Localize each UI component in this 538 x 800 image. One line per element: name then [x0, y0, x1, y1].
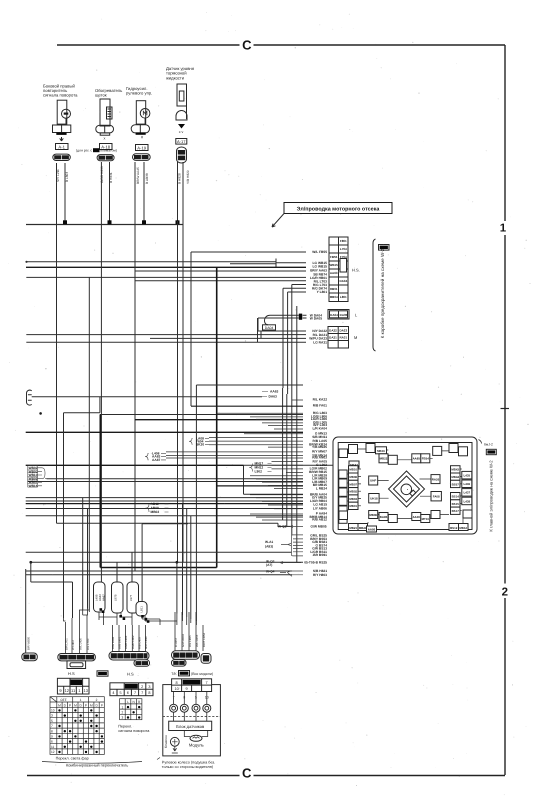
svg-text:Клаксон: Клаксон [164, 735, 168, 748]
svg-text:MT10: MT10 [422, 517, 430, 521]
svg-text:AA30: AA30 [413, 515, 421, 519]
svg-text:12: 12 [51, 750, 55, 754]
svg-text:R/B L409: R/B L409 [138, 637, 142, 649]
svg-text:F801: F801 [340, 239, 347, 243]
svg-text:B/R WB05: B/R WB05 [27, 636, 31, 650]
svg-text:MB21: MB21 [349, 526, 357, 530]
svg-text:W/B L401: W/B L401 [118, 636, 122, 649]
svg-text:L977: L977 [129, 594, 133, 601]
svg-text:FA08: FA08 [433, 495, 440, 499]
svg-text:Комбинированный переключатель: Комбинированный переключатель [66, 763, 128, 768]
svg-text:MB02: MB02 [349, 490, 357, 494]
svg-text:MB12: MB12 [459, 526, 467, 530]
svg-text:H.S: H.S [127, 672, 134, 677]
svg-text:B FB57: B FB57 [174, 637, 178, 647]
svg-text:A-1: A-1 [58, 144, 65, 149]
svg-text:R/L FB55: R/L FB55 [188, 635, 192, 647]
svg-text:LG/R L402: LG/R L402 [131, 635, 135, 649]
svg-text:L435: L435 [464, 474, 471, 478]
svg-text:RA26: RA26 [432, 477, 440, 481]
svg-text:9: 9 [186, 687, 188, 691]
svg-text:AA63: AA63 [330, 271, 338, 275]
svg-text:(А7): (А7) [266, 563, 272, 567]
svg-text:F704: F704 [340, 255, 347, 259]
svg-text:1: 1 [80, 698, 82, 702]
svg-text:HB01: HB01 [330, 287, 338, 291]
svg-text:7: 7 [51, 724, 53, 728]
svg-text:M: M [90, 703, 93, 707]
svg-text:M: M [74, 703, 77, 707]
svg-text:05-Т05-В RS25: 05-Т05-В RS25 [304, 561, 327, 565]
svg-text:AA87: AA87 [101, 594, 105, 601]
svg-text:G/OR H833: G/OR H833 [100, 166, 104, 183]
svg-text:SK20: SK20 [196, 442, 204, 446]
svg-text:FB55: FB55 [330, 255, 338, 259]
svg-text:LT02: LT02 [87, 657, 93, 660]
svg-text:AA87: AA87 [152, 458, 161, 462]
svg-text:6: 6 [51, 740, 53, 744]
svg-text:W/L FB55: W/L FB55 [195, 634, 199, 647]
svg-text:BR BS91: BR BS91 [313, 553, 327, 557]
svg-text:B/R L701: B/R L701 [64, 638, 68, 650]
svg-text:LA03: LA03 [69, 657, 76, 660]
svg-text:BS17: BS17 [452, 509, 460, 513]
svg-text:MB24: MB24 [359, 526, 367, 530]
svg-text:Рулевое колесо (подушка без.: Рулевое колесо (подушка без. [162, 760, 215, 764]
svg-text:FB54: FB54 [422, 457, 429, 461]
svg-text:R/B AB12: R/B AB12 [312, 518, 327, 522]
svg-text:2: 2 [122, 711, 124, 715]
svg-text:OFF: OFF [60, 698, 66, 702]
svg-text:8: 8 [148, 691, 150, 695]
svg-text:L437: L437 [464, 491, 471, 495]
svg-text:H.S: H.S [68, 671, 75, 676]
svg-text:L438: L438 [464, 499, 471, 503]
svg-text:B L803: B L803 [65, 172, 69, 182]
svg-text:AA85: AA85 [413, 457, 421, 461]
svg-text:6: 6 [127, 691, 129, 695]
svg-text:11: 11 [51, 745, 55, 749]
svg-text:R/L KA22: R/L KA22 [313, 398, 328, 402]
svg-text:8: 8 [176, 681, 178, 685]
svg-text:L902: L902 [255, 470, 263, 474]
svg-text:1: 1 [500, 223, 507, 235]
svg-text:B H828: B H828 [178, 173, 182, 184]
svg-text:MB04: MB04 [330, 295, 338, 299]
svg-text:8: 8 [51, 729, 53, 733]
svg-text:C: C [242, 766, 252, 781]
svg-text:(А83): (А83) [265, 544, 273, 548]
svg-text:LB11: LB11 [140, 606, 144, 613]
svg-text:W L403: W L403 [71, 640, 75, 650]
svg-text:P: P [101, 703, 103, 707]
svg-text:MB07: MB07 [349, 482, 357, 486]
svg-text:MB03: MB03 [349, 497, 357, 501]
svg-text:LG/B L406: LG/B L406 [124, 635, 128, 649]
svg-text:R/G L404: R/G L404 [111, 637, 115, 649]
svg-text:MB44: MB44 [451, 475, 459, 479]
svg-text:BS57: BS57 [452, 482, 460, 486]
svg-text:W/L FB55: W/L FB55 [312, 250, 327, 254]
svg-text:A-17: A-17 [177, 139, 186, 144]
svg-text:Модуль: Модуль [189, 743, 205, 748]
svg-text:L404: L404 [124, 655, 130, 658]
svg-text:L RB24: L RB24 [316, 486, 327, 490]
svg-text:рулевого упр.: рулевого упр. [126, 91, 152, 96]
svg-text:Y/B MN25: Y/B MN25 [312, 445, 327, 449]
svg-text:7: 7 [134, 691, 136, 695]
svg-text:DA04: DA04 [265, 326, 274, 330]
svg-text:MB47: MB47 [350, 463, 358, 467]
svg-text:P: P [85, 703, 87, 707]
svg-text:BS15: BS15 [452, 502, 460, 506]
svg-text:Y/B H829: Y/B H829 [186, 170, 190, 184]
svg-text:AA63: AA63 [270, 390, 279, 394]
svg-text:AA86: AA86 [368, 528, 376, 532]
svg-text:L436: L436 [464, 482, 471, 486]
svg-text:щеток: щеток [95, 93, 107, 98]
svg-text:L/R KA04: L/R KA04 [313, 427, 328, 431]
svg-text:H.S.: H.S. [352, 268, 360, 273]
svg-text:9: 9 [51, 735, 53, 739]
svg-text:W-Q4: W-Q4 [266, 570, 275, 574]
svg-text:бмJ-2: бмJ-2 [484, 442, 493, 446]
svg-text:L406: L406 [131, 655, 137, 658]
svg-text:x: x [104, 137, 106, 141]
svg-text:P: P [69, 703, 71, 707]
svg-text:L97B: L97B [114, 594, 118, 601]
svg-text:Т/К: Т/К [171, 672, 177, 676]
svg-text:2: 2 [96, 698, 98, 702]
svg-text:сигнала поворота: сигнала поворота [118, 729, 150, 733]
svg-text:сигнала поворота: сигнала поворота [43, 93, 78, 98]
svg-text:M: M [58, 703, 61, 707]
svg-text:M: M [354, 335, 357, 340]
svg-text:2: 2 [141, 685, 143, 689]
svg-text:MB10: MB10 [349, 468, 357, 472]
svg-text:3: 3 [148, 685, 150, 689]
svg-text:3: 3 [122, 716, 124, 720]
svg-text:12: 12 [65, 688, 70, 693]
svg-text:BA85: BA85 [380, 515, 388, 519]
svg-text:BS14: BS14 [452, 495, 460, 499]
svg-text:DA22: DA22 [329, 329, 337, 333]
svg-text:B AB38: B AB38 [145, 173, 149, 184]
svg-text:MB02: MB02 [151, 510, 160, 514]
svg-text:x v: x v [179, 130, 184, 134]
svg-text:К главной эл/проводке на схеме: К главной эл/проводке на схеме W-2 [489, 460, 494, 532]
svg-text:Перекл. света фар: Перекл. света фар [56, 756, 89, 760]
svg-text:WB15: WB15 [330, 263, 339, 267]
svg-text:G/W L996: G/W L996 [144, 636, 148, 649]
svg-text:W-Q2: W-Q2 [278, 525, 287, 529]
svg-text:L: L [355, 313, 358, 318]
svg-text:DA04: DA04 [330, 313, 338, 317]
svg-text:4: 4 [112, 691, 114, 695]
svg-text:Y L801: Y L801 [317, 290, 328, 294]
svg-text:LA05: LA05 [78, 657, 85, 660]
svg-text:DA21: DA21 [329, 336, 337, 340]
svg-text:L/Y AB06: L/Y AB06 [313, 506, 327, 510]
svg-text:5: 5 [51, 719, 53, 723]
svg-text:DA63: DA63 [269, 395, 278, 399]
svg-text:7: 7 [141, 691, 143, 695]
svg-text:LA01: LA01 [117, 655, 123, 658]
svg-text:Блок датчиков: Блок датчиков [176, 724, 205, 729]
svg-text:G/W MB05: G/W MB05 [311, 525, 327, 529]
svg-text:A-19: A-19 [137, 145, 147, 150]
svg-text:1: 1 [122, 705, 124, 709]
svg-text:L: L [127, 700, 129, 704]
svg-text:MB16: MB16 [377, 449, 385, 453]
svg-text:жидкости: жидкости [166, 75, 185, 80]
svg-text:LG RA31: LG RA31 [313, 340, 327, 344]
svg-text:Эл/проводка моторного отсека: Эл/проводка моторного отсека [297, 207, 381, 213]
svg-text:климатом): климатом) [101, 149, 117, 153]
svg-text:FB54: FB54 [186, 655, 193, 658]
svg-text:10: 10 [51, 709, 55, 713]
svg-text:R/B FA01: R/B FA01 [313, 404, 327, 408]
svg-text:К коробке предохранителей на с: К коробке предохранителей на схеме W-2 [380, 248, 385, 338]
svg-text:W/L L405: W/L L405 [78, 638, 82, 650]
svg-text:Перекл.: Перекл. [118, 724, 132, 728]
svg-text:RA31: RA31 [339, 336, 347, 340]
svg-text:MB43: MB43 [451, 468, 459, 472]
svg-text:L801: L801 [340, 295, 347, 299]
svg-text:BR/Y FB54: BR/Y FB54 [202, 633, 206, 647]
svg-text:BS12: BS12 [450, 526, 458, 530]
svg-text:L704: L704 [340, 247, 347, 251]
svg-text:UH18: UH18 [370, 497, 378, 501]
svg-text:10: 10 [174, 687, 178, 691]
svg-text:DA23: DA23 [339, 329, 347, 333]
svg-text:MB01: MB01 [349, 504, 357, 508]
svg-text:MB22: MB22 [380, 457, 388, 461]
svg-text:5: 5 [120, 691, 122, 695]
svg-text:DA05: DA05 [340, 313, 348, 317]
svg-text:UHP: UHP [370, 479, 376, 483]
svg-text:только со стороны водителя): только со стороны водителя) [162, 765, 214, 769]
svg-text:(Все модели): (Все модели) [191, 672, 213, 676]
svg-text:BR/W AA45: BR/W AA45 [136, 167, 140, 184]
svg-text:W DA05: W DA05 [310, 316, 322, 320]
svg-text:(для рег. с: (для рег. с [76, 149, 92, 153]
svg-text:#: # [141, 136, 144, 140]
svg-text:L996: L996 [111, 655, 117, 658]
svg-text:L402: L402 [137, 655, 143, 658]
svg-text:C: C [242, 38, 252, 53]
svg-text:7: 7 [206, 681, 208, 685]
svg-text:L701: L701 [61, 657, 67, 660]
svg-text:13: 13 [83, 688, 88, 693]
svg-text:R/Y H803: R/Y H803 [313, 573, 327, 577]
svg-text:MB06: MB06 [369, 513, 377, 517]
svg-text:G/W AB03: G/W AB03 [181, 633, 185, 647]
svg-text:R/L L700: R/L L700 [86, 638, 90, 650]
svg-text:3: 3 [51, 714, 53, 718]
svg-text:MB08: MB08 [349, 475, 357, 479]
svg-text:DA04: DA04 [339, 279, 347, 283]
svg-text:2: 2 [502, 586, 508, 598]
